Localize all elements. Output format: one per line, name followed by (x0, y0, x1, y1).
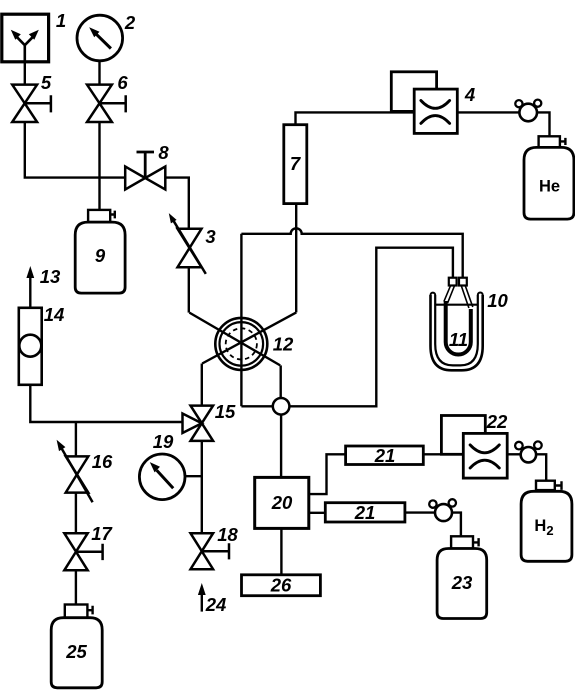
svg-text:21: 21 (354, 502, 376, 523)
U-tube 11 fittings (449, 278, 467, 286)
valve U12 multiport circles (215, 318, 267, 370)
svg-text:24: 24 (205, 594, 227, 615)
He regulator (515, 100, 541, 122)
wire junction circle to box20 (280, 406, 282, 477)
wire H2 regulator to H2 cylinder (536, 454, 546, 480)
rect 26 (242, 575, 321, 596)
svg-text:7: 7 (290, 153, 302, 174)
wire valve15 to valve18 (201, 441, 203, 533)
item 22 restrictor (441, 416, 507, 479)
wire regulator23 to bottle23 (452, 513, 461, 537)
wire rotameter to tee to valve15 left (30, 385, 182, 422)
svg-text:16: 16 (92, 451, 113, 472)
item 4 restrictor (391, 72, 457, 134)
wire box20 to rect26 (280, 528, 282, 574)
wire valve6 to bottle9 (98, 122, 100, 210)
svg-text:9: 9 (95, 245, 106, 266)
valve 3 (169, 213, 206, 274)
valve 17 (64, 533, 102, 570)
svg-text:12: 12 (273, 334, 294, 355)
wire upper rect21 to item22 (423, 453, 463, 455)
wire gauge19 stub (185, 475, 202, 477)
He cylinder (524, 136, 574, 219)
rotameter 14 (19, 308, 42, 385)
svg-text:20: 20 (271, 492, 293, 513)
valve 5 (12, 85, 51, 122)
svg-text:3: 3 (205, 226, 216, 247)
wire valve12 bottom-right bend down to junction circle (280, 365, 282, 406)
H2 regulator (515, 441, 542, 462)
svg-text:17: 17 (91, 523, 113, 544)
svg-text:11: 11 (449, 329, 468, 350)
wire valve12 top horizontal with hop to U-tube right fitting (241, 228, 462, 277)
regulator 23 (429, 499, 456, 521)
wire item4 to He regulator (457, 111, 519, 113)
svg-text:13: 13 (40, 266, 61, 287)
svg-text:22: 22 (486, 411, 508, 432)
box 1 (2, 14, 49, 62)
wire He regulator to He cylinder (537, 112, 550, 136)
U-tube 11 (444, 286, 473, 355)
valve 6 (87, 85, 126, 122)
arrow 13 vent (26, 266, 34, 308)
junction circle node (273, 398, 290, 415)
wire valve16 to valve17 (75, 493, 77, 534)
wire box20 to lower rect21 (309, 512, 326, 514)
svg-text:23: 23 (451, 572, 473, 593)
lower restrictor 21 (325, 503, 405, 522)
wire valve12 bottom to junction circle (241, 405, 281, 407)
gauge 19 (139, 454, 185, 500)
wire valve12 diagonal A (189, 313, 280, 366)
svg-text:25: 25 (65, 641, 87, 662)
wire valve17 to bottle25 (75, 570, 77, 604)
box 20 (255, 477, 309, 528)
dewar 10 (431, 293, 483, 371)
valve 16 (57, 440, 93, 503)
wire column7 top to item4 (296, 112, 415, 124)
svg-text:8: 8 (158, 142, 169, 163)
svg-text:18: 18 (217, 524, 238, 545)
svg-text:6: 6 (117, 72, 128, 93)
svg-text:10: 10 (487, 290, 508, 311)
bottle 25 (51, 605, 102, 688)
wire valve12 diagonal B (202, 312, 296, 363)
svg-text:4: 4 (464, 84, 475, 105)
svg-text:14: 14 (44, 304, 65, 325)
svg-text:5: 5 (41, 72, 52, 93)
wire box1 to valve5 (24, 60, 26, 85)
wire valve12 vertical port line (240, 234, 242, 406)
wire item22 to H2 regulator (507, 453, 521, 455)
svg-text:1: 1 (56, 10, 66, 31)
svg-text:2: 2 (124, 12, 136, 33)
wire tee down to valve16 (75, 422, 77, 456)
wire gauge2 to valve6 (98, 61, 100, 85)
wire column7 bottom through hop to valve12 bend (295, 204, 297, 313)
svg-text:26: 26 (270, 575, 292, 596)
wire valve12 bend to valve15 (201, 364, 203, 406)
column 7 (284, 125, 307, 204)
valve 18 (191, 533, 230, 569)
H2 cylinder (521, 481, 572, 562)
upper restrictor 21 (346, 446, 424, 465)
wire junction circle to dewar loop to left fitting (289, 248, 453, 407)
svg-text:21: 21 (374, 445, 396, 466)
valve 8 (125, 152, 165, 190)
wire lower rect21 to regulator23 (405, 511, 435, 513)
wire box20 to upper rect21 (309, 454, 346, 494)
bottle 23 (437, 536, 487, 618)
wire valve3 to valve12 bend (188, 267, 190, 312)
valve 15 three-way (183, 406, 214, 441)
gauge 2 (77, 15, 123, 61)
wire valve5 to corner to valve8 (25, 122, 126, 178)
svg-text:19: 19 (153, 431, 174, 452)
svg-text:He: He (539, 178, 560, 196)
svg-text:15: 15 (215, 401, 236, 422)
arrow 24 inlet (198, 583, 206, 612)
wire valve8 to valve3 (165, 178, 189, 229)
bottle 9 (75, 210, 125, 293)
